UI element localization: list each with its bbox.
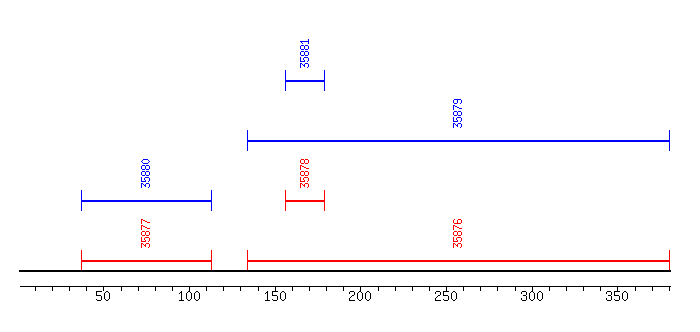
sequence line — [19, 270, 671, 272]
left cap — [247, 130, 248, 151]
right cap — [324, 190, 325, 211]
ruler label 100 — [179, 291, 200, 301]
span line — [247, 140, 670, 142]
label 35878 — [300, 159, 309, 188]
label 35880 — [141, 159, 150, 188]
feature 35881 — [285, 39, 325, 91]
ruler ticks — [35, 287, 670, 291]
span line — [81, 200, 212, 202]
ruler label 350 — [606, 291, 628, 301]
ruler label 250 — [435, 291, 457, 301]
span line — [81, 260, 212, 262]
feature 35880 — [81, 159, 212, 211]
left cap — [81, 250, 82, 271]
ruler label 150 — [265, 291, 286, 301]
ruler label 300 — [521, 291, 543, 301]
right cap — [211, 190, 212, 211]
span line — [285, 80, 325, 82]
right cap — [211, 250, 212, 271]
right cap — [669, 250, 670, 271]
feature 35879 — [247, 99, 670, 151]
label 35877 — [141, 219, 150, 248]
left cap — [81, 190, 82, 211]
left cap — [285, 70, 286, 91]
left cap — [247, 250, 248, 271]
label 35881 — [300, 39, 309, 68]
feature 35877 — [81, 219, 212, 271]
ruler baseline — [20, 286, 671, 287]
label 35876 — [453, 219, 462, 248]
right cap — [669, 130, 670, 151]
feature 35878 — [285, 159, 325, 211]
label 35879 — [453, 99, 462, 128]
span line — [285, 200, 325, 202]
left cap — [285, 190, 286, 211]
span line — [247, 260, 670, 262]
ruler label 200 — [349, 291, 371, 301]
feature 35876 — [247, 219, 670, 271]
ruler label 50 — [96, 291, 110, 301]
right cap — [324, 70, 325, 91]
